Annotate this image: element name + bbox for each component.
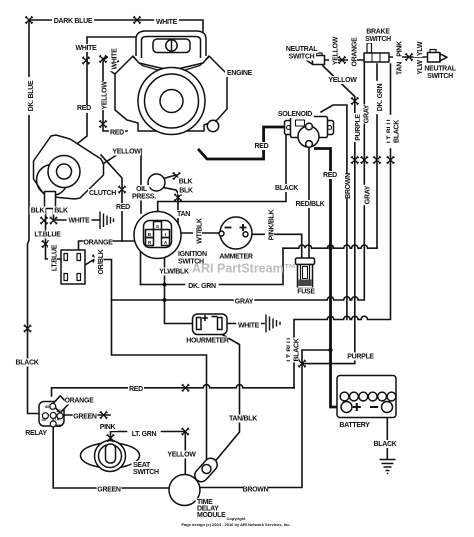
engine body silhouette (115, 56, 227, 131)
neutral switch left (306, 56, 313, 64)
ignition switch circle (134, 212, 181, 259)
svg-text:GRAY: GRAY (364, 104, 371, 123)
relay pin numbers (42, 404, 62, 428)
label BLACK (rotated) (290, 338, 299, 363)
engine left tab (109, 61, 119, 74)
clutch pulley circle (37, 165, 68, 196)
svg-text:ORANGE: ORANGE (352, 37, 359, 67)
label YELLOW (112, 148, 141, 156)
battery plus terminal (341, 402, 352, 413)
label BLK (30, 207, 46, 215)
label WHITE (74, 44, 99, 52)
label BLK (178, 187, 194, 195)
label FUSE (296, 288, 316, 296)
wire tan/blk hourmeter to time delay module (210, 335, 240, 468)
label GRAY (rotated) (360, 105, 369, 124)
svg-text:SOLENOID: SOLENOID (278, 111, 312, 118)
hourmeter body (193, 314, 228, 335)
svg-text:NEUTRAL: NEUTRAL (286, 46, 318, 53)
label GREEN (73, 413, 98, 421)
wire gray horizontal with hops up to brake switch (112, 62, 365, 300)
fuse body (298, 265, 313, 289)
label OIL (134, 185, 150, 193)
svg-text:I: I (165, 232, 166, 237)
connector X blk clutch left (40, 217, 48, 225)
label BLACK (274, 184, 299, 192)
svg-text:BLACK: BLACK (16, 360, 39, 367)
svg-text:BLK: BLK (179, 188, 193, 195)
connector X or/blk (92, 255, 100, 263)
label RED (115, 203, 131, 211)
connector X pink (107, 434, 115, 442)
svg-text:GREEN: GREEN (97, 487, 121, 494)
svg-text:HOURMETER: HOURMETER (186, 338, 229, 345)
wire lt.blue clutch to pto (46, 208, 62, 259)
svg-text:RED: RED (77, 105, 91, 112)
wire dark blue-white top horizontal (29, 20, 203, 31)
label WT/BLK (rotated) (193, 217, 202, 246)
connector X dk grn (373, 156, 381, 164)
battery minus terminal (382, 402, 393, 413)
svg-text:LT.BLUE: LT.BLUE (34, 232, 61, 239)
ammeter circle (220, 217, 252, 249)
seat switch right ear (127, 450, 138, 461)
label GREEN (97, 486, 122, 494)
ignition cell letters (148, 224, 168, 245)
wire lt.blu/black lower run with hops (294, 64, 391, 388)
label BLACK (15, 359, 40, 367)
svg-text:RED: RED (323, 172, 337, 179)
svg-text:Page design (c) 2004 - 2016 by: Page design (c) 2004 - 2016 by ARI Netwo… (181, 522, 290, 527)
wire ylw/blk ignition A to hourmeter (165, 245, 193, 324)
engine top shell (136, 31, 206, 56)
label BLACK (rotated) (390, 119, 399, 144)
battery plus sign (353, 403, 361, 411)
connector X lt grn-yellow (182, 428, 190, 436)
svg-text:WHITE: WHITE (156, 19, 178, 26)
svg-text:WT/BLK: WT/BLK (197, 218, 204, 244)
label ORANGE (84, 239, 113, 247)
engine fuel tank (153, 39, 190, 53)
svg-text:YELLOW: YELLOW (328, 77, 357, 84)
svg-text:PINK: PINK (100, 424, 116, 431)
wire blk/tan oil press lower lead to ignition (164, 188, 179, 227)
svg-text:RELAY: RELAY (25, 430, 47, 437)
battery body (337, 376, 396, 418)
label SEAT (132, 461, 152, 469)
wire white hourmeter to ground (227, 323, 264, 325)
solenoid flange (291, 117, 328, 138)
label MODULE (196, 512, 223, 520)
svg-text:SEAT: SEAT (133, 462, 151, 469)
svg-text:SWITCH: SWITCH (133, 469, 159, 476)
svg-text:OIL: OIL (136, 186, 148, 193)
label LT. BLU (rotated) (383, 115, 392, 148)
solenoid tab holes (287, 126, 291, 130)
svg-text:YELLOW: YELLOW (112, 149, 141, 156)
label RED (128, 385, 144, 393)
label PINK (97, 423, 117, 431)
label NEUTRAL (285, 45, 318, 53)
svg-text:YLW: YLW (417, 41, 424, 56)
clutch outline (34, 135, 104, 199)
label YLW/BLK (157, 268, 190, 276)
svg-text:BATTERY: BATTERY (339, 422, 370, 429)
svg-text:YELLOW: YELLOW (333, 36, 340, 65)
label GRAY (rotated) (361, 185, 370, 205)
label WHITE (67, 217, 92, 225)
solenoid bottom post (306, 141, 313, 148)
svg-text:BLACK: BLACK (394, 120, 401, 143)
wire or/blk pto to gray and time delay module (80, 260, 207, 461)
label HOURMETER (187, 337, 229, 345)
svg-text:DK. BLUE: DK. BLUE (28, 80, 35, 111)
svg-text:WHITE: WHITE (68, 218, 90, 225)
svg-text:BLACK: BLACK (374, 441, 397, 448)
wire red relay horizontal with hops (52, 385, 295, 396)
pto switch pins (64, 254, 68, 261)
hourmeter right slot (218, 318, 223, 330)
label YLW (rotated) (414, 41, 423, 57)
ignition switch key housing (144, 221, 172, 248)
svg-text:TAN/BLK: TAN/BLK (229, 416, 257, 423)
hourmeter plus sign (202, 315, 208, 321)
seat switch left ear (82, 450, 93, 461)
svg-text:ORANGE: ORANGE (84, 240, 114, 247)
svg-text:BLACK: BLACK (275, 185, 298, 192)
label RED (77, 105, 93, 113)
label DELAY (196, 505, 219, 513)
svg-text:YELLOW: YELLOW (167, 452, 196, 459)
connector X lt blu/black (387, 156, 395, 164)
connector X yellow engine left lower (99, 120, 107, 128)
oil pressure switch (148, 174, 165, 191)
ignition switch cells (154, 222, 162, 230)
label BLK (178, 178, 194, 186)
ammeter pins (219, 231, 224, 236)
wire dk. grn horizontal to fuse riser to brake switch (141, 64, 378, 285)
label LT. GRN (127, 430, 160, 438)
svg-text:GREEN: GREEN (73, 414, 97, 421)
label TIME (196, 499, 215, 507)
svg-text:RED/BLK: RED/BLK (295, 201, 324, 208)
label RED/BLK (293, 200, 326, 208)
label BRAKE (366, 28, 391, 36)
svg-text:TAN: TAN (397, 62, 404, 75)
wire green relay stub (64, 414, 110, 416)
svg-text:Copyright: Copyright (227, 516, 247, 521)
svg-text:MODULE: MODULE (197, 512, 226, 519)
svg-text:TAN: TAN (177, 211, 190, 218)
label YELLOW (167, 451, 196, 459)
label YLW (rotated) (414, 60, 423, 76)
wire orange pto to ignition R (79, 241, 147, 253)
label SWITCH (177, 258, 206, 266)
relay pins (50, 403, 56, 409)
wire white engine left (73, 37, 136, 147)
label DK. GRN (rotated) (374, 81, 383, 114)
label AMMETER (219, 253, 252, 261)
connector X yellow neutral-brake (338, 56, 346, 64)
engine fuel cap (166, 40, 177, 51)
svg-text:RED: RED (116, 204, 130, 211)
hourmeter left slot (197, 318, 202, 330)
svg-text:RED: RED (129, 386, 143, 393)
svg-text:BLK: BLK (31, 208, 45, 215)
connector X lt.blue (42, 240, 50, 248)
solenoid top post (306, 123, 313, 130)
svg-text:SWITCH: SWITCH (365, 36, 391, 43)
engine starter boss (207, 120, 218, 131)
label LT. BLU (rotated) (283, 333, 292, 366)
solenoid detail rect (296, 120, 305, 126)
engine collar ridge (133, 57, 209, 70)
seat switch plunger (106, 444, 116, 463)
solenoid left tab (285, 121, 293, 135)
svg-text:GRAY: GRAY (235, 299, 254, 306)
time delay module tab (192, 456, 220, 485)
label DARK BLUE (52, 17, 94, 25)
svg-text:BRAKE: BRAKE (366, 29, 390, 36)
label ENGINE (225, 69, 254, 77)
wire blk clutch right to white ground (54, 208, 100, 221)
neutral switch right (428, 53, 441, 63)
svg-text:SWITCH: SWITCH (289, 54, 315, 61)
label WHITE (rotated) (108, 47, 117, 72)
svg-text:BLK: BLK (179, 179, 193, 186)
label SWITCH (364, 35, 393, 43)
connector X white engine left (82, 57, 90, 65)
svg-text:YLW/BLK: YLW/BLK (159, 269, 189, 276)
wire thick red solenoid to battery plus (316, 149, 342, 408)
svg-text:87: 87 (57, 408, 62, 413)
svg-text:AMMETER: AMMETER (219, 254, 253, 261)
label BROWN (rotated) (341, 174, 350, 199)
relay diamond (52, 396, 68, 413)
svg-text:YLW: YLW (417, 60, 424, 75)
junction dots (163, 246, 333, 352)
solenoid cylinder (298, 126, 319, 147)
wire thick red engine to solenoid (199, 127, 303, 159)
label BROWN (243, 486, 268, 494)
svg-text:RED: RED (255, 143, 269, 150)
svg-text:BLACK: BLACK (294, 338, 301, 361)
connector X purple-brown (298, 360, 306, 368)
svg-text:DARK BLUE: DARK BLUE (54, 18, 93, 25)
svg-text:85: 85 (57, 423, 62, 428)
wire wt/blk ignition I to ammeter (168, 232, 219, 234)
label PINK/BLK (rotated) (265, 210, 274, 241)
label PURPLE (346, 353, 375, 361)
time delay module circle (169, 475, 200, 506)
svg-text:BLK: BLK (54, 208, 68, 215)
wire yellow left neutral to brake (324, 59, 366, 61)
connector X blk oil press upper (173, 172, 181, 180)
label RELAY (24, 429, 49, 437)
label YELLOW (328, 76, 357, 84)
svg-text:PRESS.: PRESS. (132, 194, 156, 201)
svg-text:86: 86 (45, 404, 50, 409)
label LT.BLUE (31, 231, 64, 239)
label LT.BLUE (rotated) (48, 241, 57, 274)
svg-text:PINK: PINK (397, 41, 404, 57)
connector X red clutch wire (118, 186, 126, 194)
svg-text:NEUTRAL: NEUTRAL (424, 66, 456, 73)
label IGNITION (177, 250, 215, 258)
svg-text:LT.BLUE: LT.BLUE (52, 244, 59, 271)
svg-text:GRAY: GRAY (365, 185, 372, 204)
label YELLOW (rotated) (329, 37, 338, 66)
label RED (109, 129, 125, 137)
svg-text:PINK/BLK: PINK/BLK (269, 209, 276, 240)
fuse cap (296, 258, 315, 265)
seat switch hull (81, 443, 140, 468)
solenoid right tab (326, 121, 334, 135)
svg-text:ARI PartStream™: ARI PartStream™ (192, 262, 296, 276)
brake switch (367, 43, 372, 53)
clutch hub circles (48, 156, 80, 188)
wire pink/blk ammeter plus to fuse (248, 234, 302, 258)
engine blower housing circles (138, 68, 205, 135)
ground brush clutch (100, 212, 114, 230)
svg-text:SWITCH: SWITCH (427, 73, 453, 80)
svg-text:RED: RED (110, 130, 124, 137)
connector X black left (24, 325, 32, 333)
label PINK (rotated) (393, 39, 402, 59)
wire black engine to ignition S (158, 129, 286, 222)
label PURPLE (rotated) (351, 113, 360, 142)
svg-text:CLUTCH: CLUTCH (89, 190, 116, 197)
svg-text:PURPLE: PURPLE (347, 354, 374, 361)
connector X gray (361, 156, 369, 164)
svg-text:ORANGE: ORANGE (65, 398, 95, 405)
ground brush hourmeter (266, 315, 280, 333)
label ORANGE (rotated) (348, 38, 357, 67)
connector X yellow/purple (351, 97, 359, 105)
svg-text:WHITE: WHITE (238, 323, 260, 330)
pto switch body (61, 250, 85, 284)
connector X white top (133, 16, 141, 24)
connector X red (182, 384, 190, 392)
wire yellow clutch to ignition (101, 149, 141, 213)
wire tan brake to right neutral switch (389, 56, 426, 58)
svg-text:YELLOW: YELLOW (102, 81, 109, 110)
label SWITCH (132, 468, 161, 476)
svg-text:BROWN: BROWN (345, 173, 352, 199)
label DK. GRN (185, 282, 218, 290)
connector X tan brake-neutral (405, 53, 413, 61)
label RED (254, 142, 270, 150)
ground battery (380, 460, 396, 474)
label GRAY (234, 298, 254, 306)
svg-text:DK. GRN: DK. GRN (377, 84, 384, 112)
label PRESS. (130, 193, 159, 201)
svg-text:DK. GRN: DK. GRN (188, 283, 216, 290)
fuse bottom band (299, 280, 312, 287)
label WHITE (236, 322, 261, 330)
wire green relay to time delay module (53, 426, 169, 488)
label OR/BLK (rotated) (95, 248, 104, 277)
svg-text:FUSE: FUSE (297, 289, 315, 296)
label BATTERY (338, 421, 371, 429)
wire yellow/purple neutral switch diagonal to battery area (200, 66, 355, 488)
ammeter plus sign (240, 224, 247, 231)
svg-text:87A: 87A (52, 417, 59, 422)
svg-text:OR/BLK: OR/BLK (98, 249, 105, 274)
label WHITE (154, 18, 179, 26)
label DK. BLUE (rotated) (25, 77, 34, 115)
copyright lines (181, 516, 290, 527)
relay body (39, 402, 64, 427)
wire blk oil press upper lead (164, 175, 177, 179)
svg-text:WHITE: WHITE (75, 45, 97, 52)
label SWITCH (426, 72, 455, 80)
label TAN (rotated) (393, 61, 402, 77)
battery cells (340, 392, 349, 401)
label BLK (53, 207, 69, 215)
label NEUTRAL (423, 65, 456, 73)
connector X purple (351, 156, 359, 164)
fuse window (303, 267, 308, 279)
wire red/blk solenoid to fuse (308, 147, 310, 259)
connector X green relay (100, 411, 108, 419)
battery minus sign (370, 406, 378, 408)
wire dark blue / dk. blue / black left vertical (28, 20, 40, 414)
seat switch body circles (95, 441, 126, 472)
label TAN/BLK (226, 415, 259, 423)
label RED (322, 171, 338, 179)
label CLUTCH (88, 189, 117, 197)
label TAN (176, 210, 192, 218)
hourmeter minus sign (212, 316, 218, 318)
label SOLENOID (276, 110, 314, 118)
label SWITCH (287, 53, 316, 61)
wire ignition B pin to dk grn (141, 233, 147, 285)
wire yellow engine left (103, 52, 127, 131)
wire dk grn bus with hops (283, 245, 377, 248)
svg-text:IGNITION: IGNITION (178, 251, 207, 258)
connector X dark blue corner (25, 16, 33, 24)
svg-text:BROWN: BROWN (243, 487, 269, 494)
wire red clutch to orange junction (101, 155, 122, 241)
label BLACK (373, 440, 398, 448)
svg-text:ENGINE: ENGINE (227, 70, 253, 77)
connector X blk clutch right (50, 217, 58, 225)
ammeter minus sign (225, 227, 232, 229)
clutch tab (45, 192, 56, 209)
connector X blk oil press lower (174, 194, 182, 202)
connector X yellow engine left upper (99, 55, 107, 63)
label ORANGE (65, 397, 94, 405)
label YELLOW (rotated) (98, 81, 107, 110)
wire brown solenoid riser (321, 105, 347, 320)
svg-text:30: 30 (42, 417, 47, 422)
svg-text:LT. GRN: LT. GRN (132, 431, 157, 438)
svg-text:S: S (156, 224, 159, 229)
svg-text:WHITE: WHITE (112, 48, 119, 70)
wire black battery to ground (386, 413, 388, 459)
wire pink seat switch / lt grn / yellow to tdm (111, 432, 186, 475)
